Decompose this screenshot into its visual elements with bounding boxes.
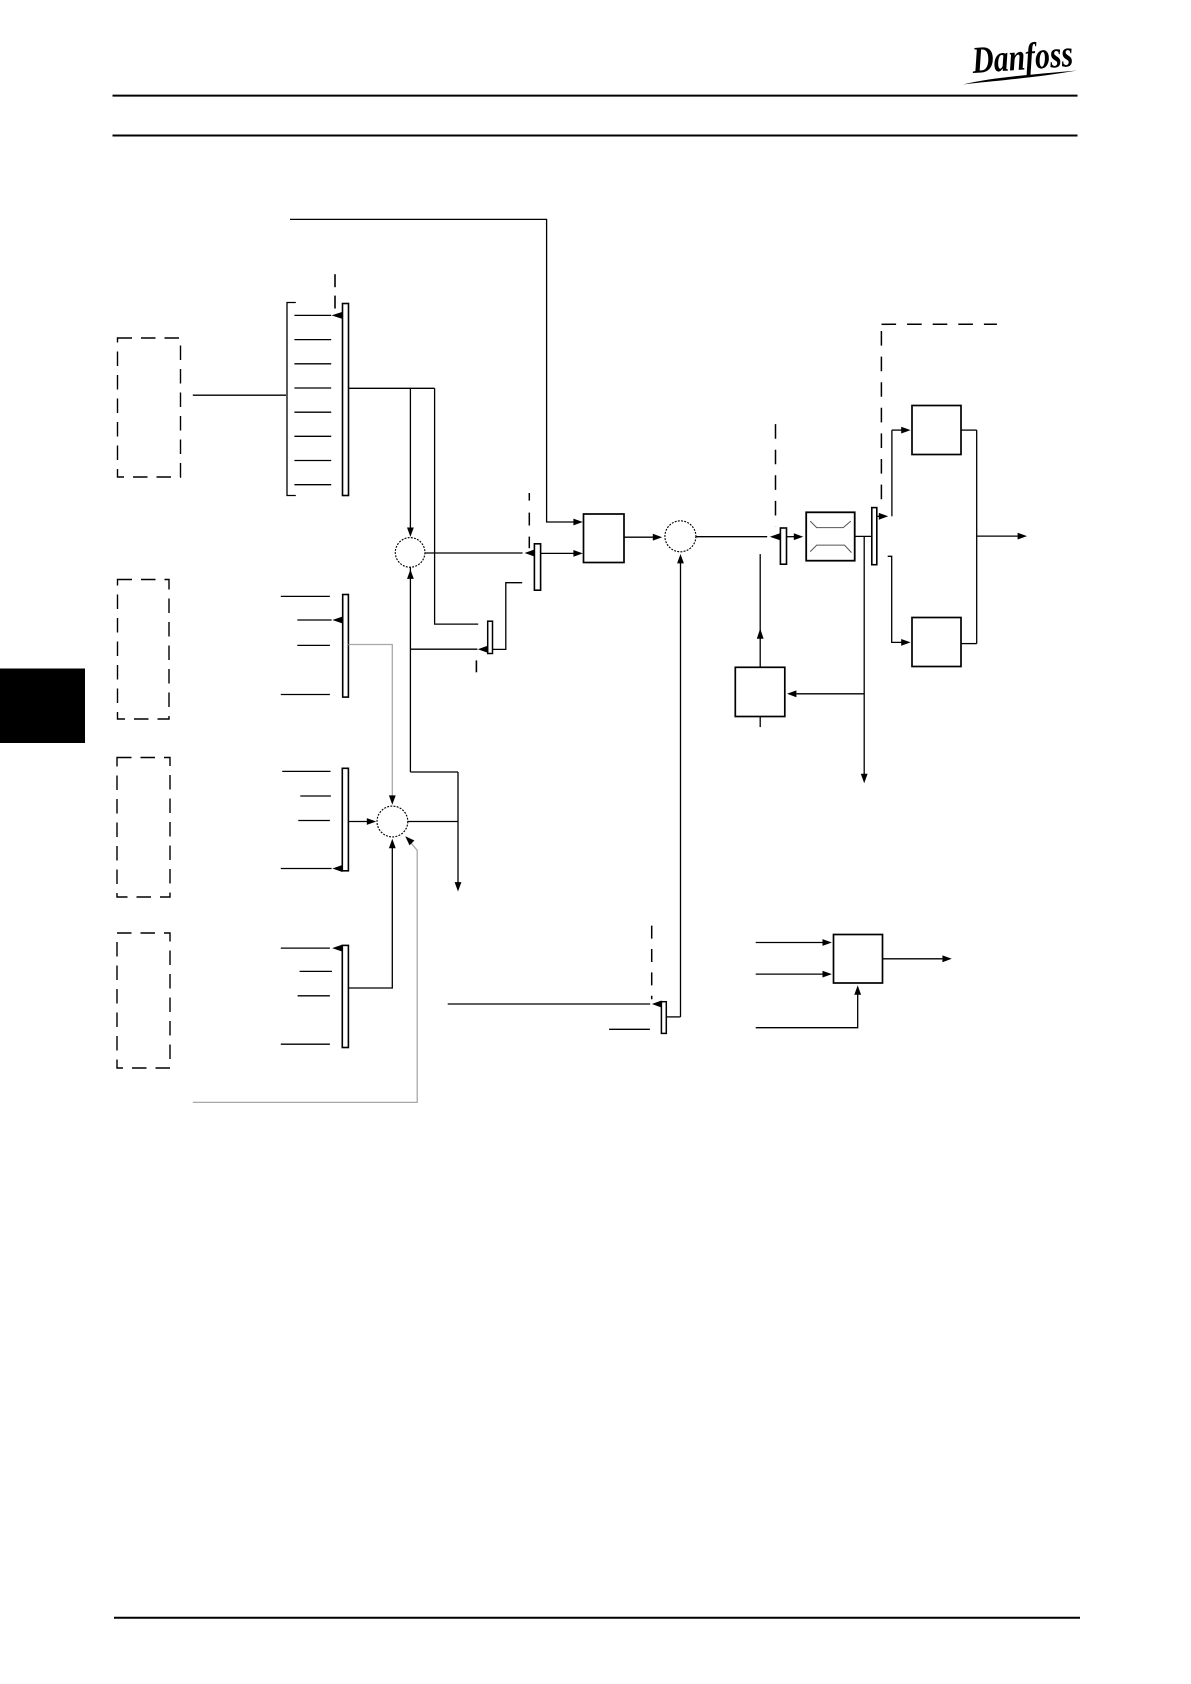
svg-text:Danfoss: Danfoss [970,33,1074,82]
